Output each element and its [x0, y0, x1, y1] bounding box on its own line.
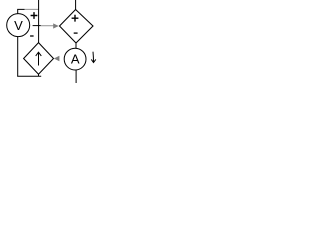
- control arrowhead into B2: [53, 23, 59, 28]
- svg-text:A: A: [71, 52, 80, 67]
- control line gray top: [25, 8, 39, 10]
- voltmeter plus polarity: [31, 12, 38, 19]
- dependent source B2 diamond: [60, 10, 94, 44]
- wire B2 to ammeter: [75, 43, 77, 49]
- wire V bottom stub: [17, 36, 19, 76]
- current source B1 diamond: [24, 43, 54, 75]
- voltmeter minus polarity: [30, 35, 33, 37]
- wire V top stub to corner: [18, 9, 25, 14]
- wire bottom horizontal: [17, 75, 41, 77]
- B2 plus sign: [72, 15, 79, 22]
- wire ammeter bottom stub: [75, 70, 77, 83]
- wire stub diamond bottom: [38, 74, 40, 76]
- control arrowhead into B1: [54, 56, 60, 61]
- control line gray from V to B2: [41, 25, 54, 27]
- current direction arrow at ammeter: [91, 52, 96, 63]
- current source B1 arrow: [36, 52, 42, 65]
- B2 minus sign: [74, 32, 78, 34]
- wire tick at V right: [33, 25, 41, 27]
- voltmeter V1 circle: [7, 14, 30, 37]
- wire middle vertical: [38, 0, 40, 43]
- wire B2 top stub: [75, 0, 77, 10]
- svg-text:V: V: [14, 18, 23, 33]
- ammeter A1 circle: [64, 48, 86, 70]
